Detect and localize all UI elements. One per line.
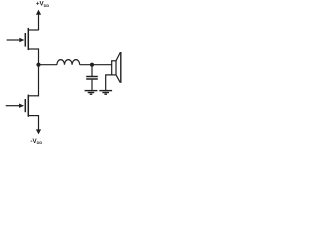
- wire Q2 source down to -VDD: [38, 115, 40, 130]
- node junction dot at output: [36, 63, 40, 67]
- wire output node to inductor: [39, 64, 58, 66]
- transistor Q2: [6, 95, 39, 117]
- node junction dot at filter: [90, 63, 94, 67]
- svg-text:-VDD: -VDD: [30, 138, 42, 145]
- wire rail Q1 source to Q2 drain: [38, 48, 40, 96]
- wire node down to capacitor: [91, 65, 93, 76]
- ground (left): [85, 91, 98, 95]
- inductor L1: [57, 60, 80, 65]
- transistor Q1: [7, 28, 39, 50]
- wire inductor to speaker: [80, 64, 112, 66]
- -VDD power terminal: [36, 129, 41, 134]
- svg-text:+VDD: +VDD: [36, 1, 49, 8]
- capacitor C1: [86, 77, 98, 80]
- speaker LS1: [112, 52, 121, 83]
- +VDD power terminal: [36, 10, 41, 31]
- wire rail from Q1 drain up: [38, 28, 40, 31]
- ground (right): [99, 91, 112, 95]
- wire speaker bottom terminal to ground: [106, 75, 112, 91]
- wire capacitor to ground: [91, 80, 93, 91]
